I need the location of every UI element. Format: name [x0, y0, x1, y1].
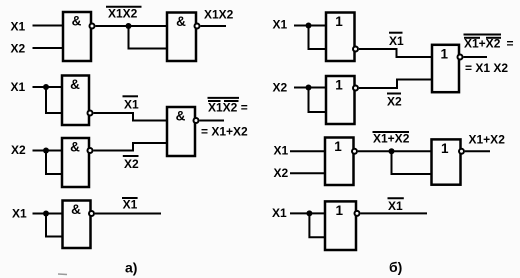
svg-text:1: 1 — [336, 203, 344, 218]
svg-text:1: 1 — [441, 141, 449, 156]
svg-text:X1+X2: X1+X2 — [373, 132, 410, 146]
svg-text:X2: X2 — [124, 157, 139, 171]
svg-text:&: & — [176, 14, 186, 29]
svg-text:= X1 X2: = X1 X2 — [465, 61, 508, 75]
svg-text:X2: X2 — [274, 166, 289, 180]
svg-text:б): б) — [389, 259, 402, 275]
svg-text:&: & — [72, 14, 82, 29]
svg-text:X2: X2 — [11, 41, 26, 55]
svg-text:X1X2: X1X2 — [204, 8, 234, 22]
svg-text:&: & — [70, 77, 80, 92]
svg-text:X1: X1 — [274, 144, 289, 158]
svg-text:X1: X1 — [123, 197, 138, 211]
svg-text:= X1+X2: = X1+X2 — [201, 125, 248, 139]
svg-text:X1X2 =: X1X2 = — [208, 101, 248, 115]
svg-text:X2: X2 — [273, 81, 288, 95]
svg-text:1: 1 — [441, 46, 449, 61]
svg-text:а): а) — [125, 260, 137, 276]
svg-text:X1+X2: X1+X2 — [464, 37, 501, 51]
svg-text:X1: X1 — [12, 207, 27, 221]
svg-text:&: & — [71, 202, 81, 217]
svg-text:X1: X1 — [388, 199, 403, 213]
svg-text:1: 1 — [334, 139, 342, 154]
svg-text:X1X2: X1X2 — [108, 6, 138, 20]
svg-text:X1: X1 — [11, 80, 26, 94]
svg-text:=: = — [507, 37, 514, 51]
svg-text:1: 1 — [335, 78, 343, 93]
svg-text:&: & — [70, 140, 80, 155]
svg-text:&: & — [176, 109, 186, 124]
svg-text:X2: X2 — [387, 94, 402, 108]
svg-text:X1: X1 — [273, 17, 288, 31]
svg-text:X1: X1 — [11, 20, 26, 34]
svg-text:X1: X1 — [124, 97, 139, 111]
svg-text:X2: X2 — [11, 143, 26, 157]
svg-text:X1+X2: X1+X2 — [469, 132, 506, 146]
svg-text:1: 1 — [335, 14, 343, 29]
svg-text:X1: X1 — [272, 206, 287, 220]
svg-text:X1: X1 — [389, 34, 404, 48]
